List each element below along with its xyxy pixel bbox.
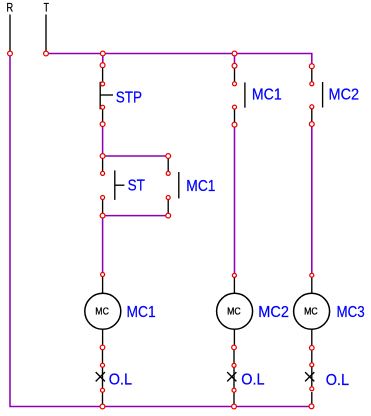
svg-text:O.L: O.L — [109, 371, 132, 388]
svg-text:MC: MC — [95, 307, 109, 318]
svg-text:T: T — [44, 2, 49, 14]
svg-text:MC1: MC1 — [127, 304, 156, 321]
svg-text:ST: ST — [128, 178, 145, 195]
svg-text:O.L: O.L — [241, 371, 264, 388]
svg-text:MC3: MC3 — [337, 304, 365, 321]
svg-text:MC: MC — [304, 307, 318, 318]
svg-text:MC2: MC2 — [258, 304, 289, 321]
svg-text:STP: STP — [116, 89, 142, 106]
svg-text:MC2: MC2 — [329, 87, 360, 104]
svg-text:MC1: MC1 — [186, 178, 215, 195]
svg-text:MC1: MC1 — [252, 87, 282, 104]
svg-text:R: R — [6, 2, 13, 14]
svg-text:O.L: O.L — [326, 372, 349, 389]
svg-text:MC: MC — [227, 307, 241, 318]
